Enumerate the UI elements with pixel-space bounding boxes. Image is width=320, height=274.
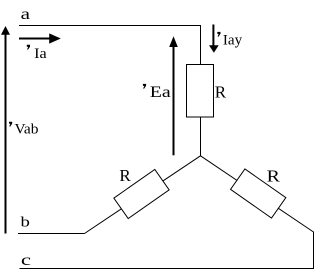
svg-text:a: a (21, 5, 31, 23)
svg-text:Ea: Ea (150, 83, 171, 101)
prime of Ea (143, 84, 146, 89)
svg-text:R: R (119, 166, 131, 185)
wire: right vertical to c (313, 232, 315, 270)
svg-text:b: b (21, 213, 30, 230)
arrow Ia (right, under wire a) (19, 38, 50, 40)
svg-text:Iay: Iay (223, 33, 243, 49)
arrow Iay (down, top right) (212, 25, 214, 47)
wire: phase a top horizontal (19, 25, 201, 27)
svg-text:c: c (21, 251, 31, 269)
resistor R3 (right diagonal, phase c) (231, 169, 286, 218)
prime of Ia (27, 45, 30, 50)
svg-text:R: R (215, 83, 227, 102)
wire: node N to b corner (left diagonal) (85, 156, 201, 234)
wire: R1 bottom to node N (200, 117, 202, 156)
svg-text:Ia: Ia (34, 46, 47, 62)
arrow Vab (up, far left) (5, 33, 7, 234)
wire: drop from a to resistor R1 (200, 26, 202, 66)
resistor R1 (vertical, phase a) (187, 65, 214, 118)
wire: c horizontal (20, 268, 315, 270)
prime of Iay (217, 32, 220, 37)
wire: node N to c side (right diagonal) (201, 156, 314, 232)
resistor R2 (left diagonal, phase b) (114, 169, 169, 218)
prime of Vab (9, 122, 12, 127)
wire: b horizontal (18, 233, 85, 235)
arrow Ea (up, centre) (173, 46, 175, 155)
svg-text:R: R (267, 168, 281, 186)
svg-text:Vab: Vab (15, 122, 39, 138)
